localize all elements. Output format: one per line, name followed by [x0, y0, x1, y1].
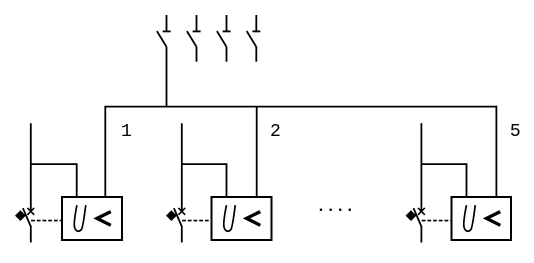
relay U2 symbol "U"	[224, 205, 236, 231]
continuation dots	[320, 209, 351, 211]
breaker Q1 blade	[23, 208, 31, 226]
svg-text:2: 2	[270, 122, 281, 142]
breaker Q5 latch flag	[406, 210, 417, 221]
breaker Q2 latch flag	[166, 210, 177, 221]
relay U1 symbol "&lt;"	[97, 212, 111, 226]
relay U2 symbol "&lt;"	[247, 212, 261, 226]
wire bus drop 5	[495, 106, 497, 197]
disconnector switch S4	[247, 15, 261, 47]
branch wire 2	[182, 164, 227, 196]
dashed trip wire 2	[182, 220, 211, 222]
undervoltage relay box U1	[62, 197, 122, 240]
dashed trip wire 1	[31, 220, 61, 222]
disconnector switch S2	[187, 15, 201, 47]
feeder wire lower F1	[30, 226, 32, 243]
bus wire	[105, 106, 496, 108]
feeder wire lower F2	[181, 226, 183, 243]
disconnector switch S1	[157, 15, 171, 47]
undervoltage relay box U2	[212, 197, 272, 240]
breaker Q2 blade	[174, 208, 182, 226]
wire below S2	[196, 47, 198, 62]
circuit breaker Q2 contact cross	[178, 208, 185, 215]
relay U1 symbol "U"	[74, 205, 86, 231]
undervoltage relay box U5	[452, 197, 512, 240]
breaker Q1 latch flag	[15, 210, 26, 221]
feeder wire upper F2	[181, 123, 183, 210]
svg-text:1: 1	[121, 122, 132, 142]
breaker Q5 blade	[414, 208, 422, 226]
disconnector switch S3	[217, 15, 231, 47]
circuit breaker Q5 contact cross	[418, 208, 425, 215]
wire below S4	[255, 47, 257, 62]
feeder wire upper F1	[30, 123, 32, 210]
feeder wire lower F5	[420, 226, 422, 243]
svg-text:5: 5	[510, 122, 521, 142]
branch wire 5	[421, 164, 466, 196]
branch wire 1	[31, 164, 77, 196]
wire bus drop 2	[256, 107, 258, 197]
relay U5 symbol "&lt;"	[487, 212, 501, 226]
relay U5 symbol "U"	[464, 205, 476, 231]
wire bus drop 1	[104, 106, 106, 197]
feeder wire upper F5	[420, 123, 422, 210]
circuit breaker Q1 contact cross	[27, 208, 34, 215]
wire S1 to bus	[166, 47, 168, 108]
dashed trip wire 5	[422, 220, 451, 222]
wire below S3	[226, 47, 228, 62]
